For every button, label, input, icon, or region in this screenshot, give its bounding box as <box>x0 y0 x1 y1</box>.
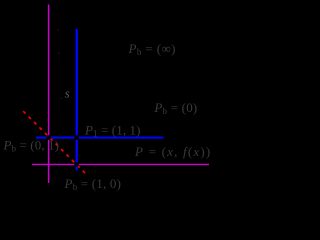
x-axis (magenta horizontal) <box>32 163 209 165</box>
y-axis (magenta vertical) <box>48 5 50 184</box>
svg-text:Pb = (∞): Pb = (∞) <box>128 41 176 57</box>
red dashed line through (0,1) and (1,0) <box>23 111 85 173</box>
node (0,1) black point marker <box>46 135 51 140</box>
node P1 (1,1) black point marker <box>74 135 79 140</box>
svg-text:Pb = (0, 1): Pb = (0, 1) <box>3 138 60 154</box>
blue horizontal line y=1 <box>36 137 164 139</box>
blue vertical line x=1 <box>75 29 77 171</box>
stray speck 2 <box>58 52 60 54</box>
svg-text:Pb = (0): Pb = (0) <box>153 100 197 116</box>
svg-text:P1 = (1, 1): P1 = (1, 1) <box>84 122 141 138</box>
svg-text:s: s <box>65 85 70 100</box>
node (1,0) black point marker <box>74 162 79 167</box>
stray speck 3 <box>61 98 62 99</box>
svg-text:P = (x, f(x)): P = (x, f(x)) <box>134 144 211 159</box>
stray speck 1 <box>57 29 59 31</box>
svg-text:Pb = (1, 0): Pb = (1, 0) <box>64 176 122 192</box>
